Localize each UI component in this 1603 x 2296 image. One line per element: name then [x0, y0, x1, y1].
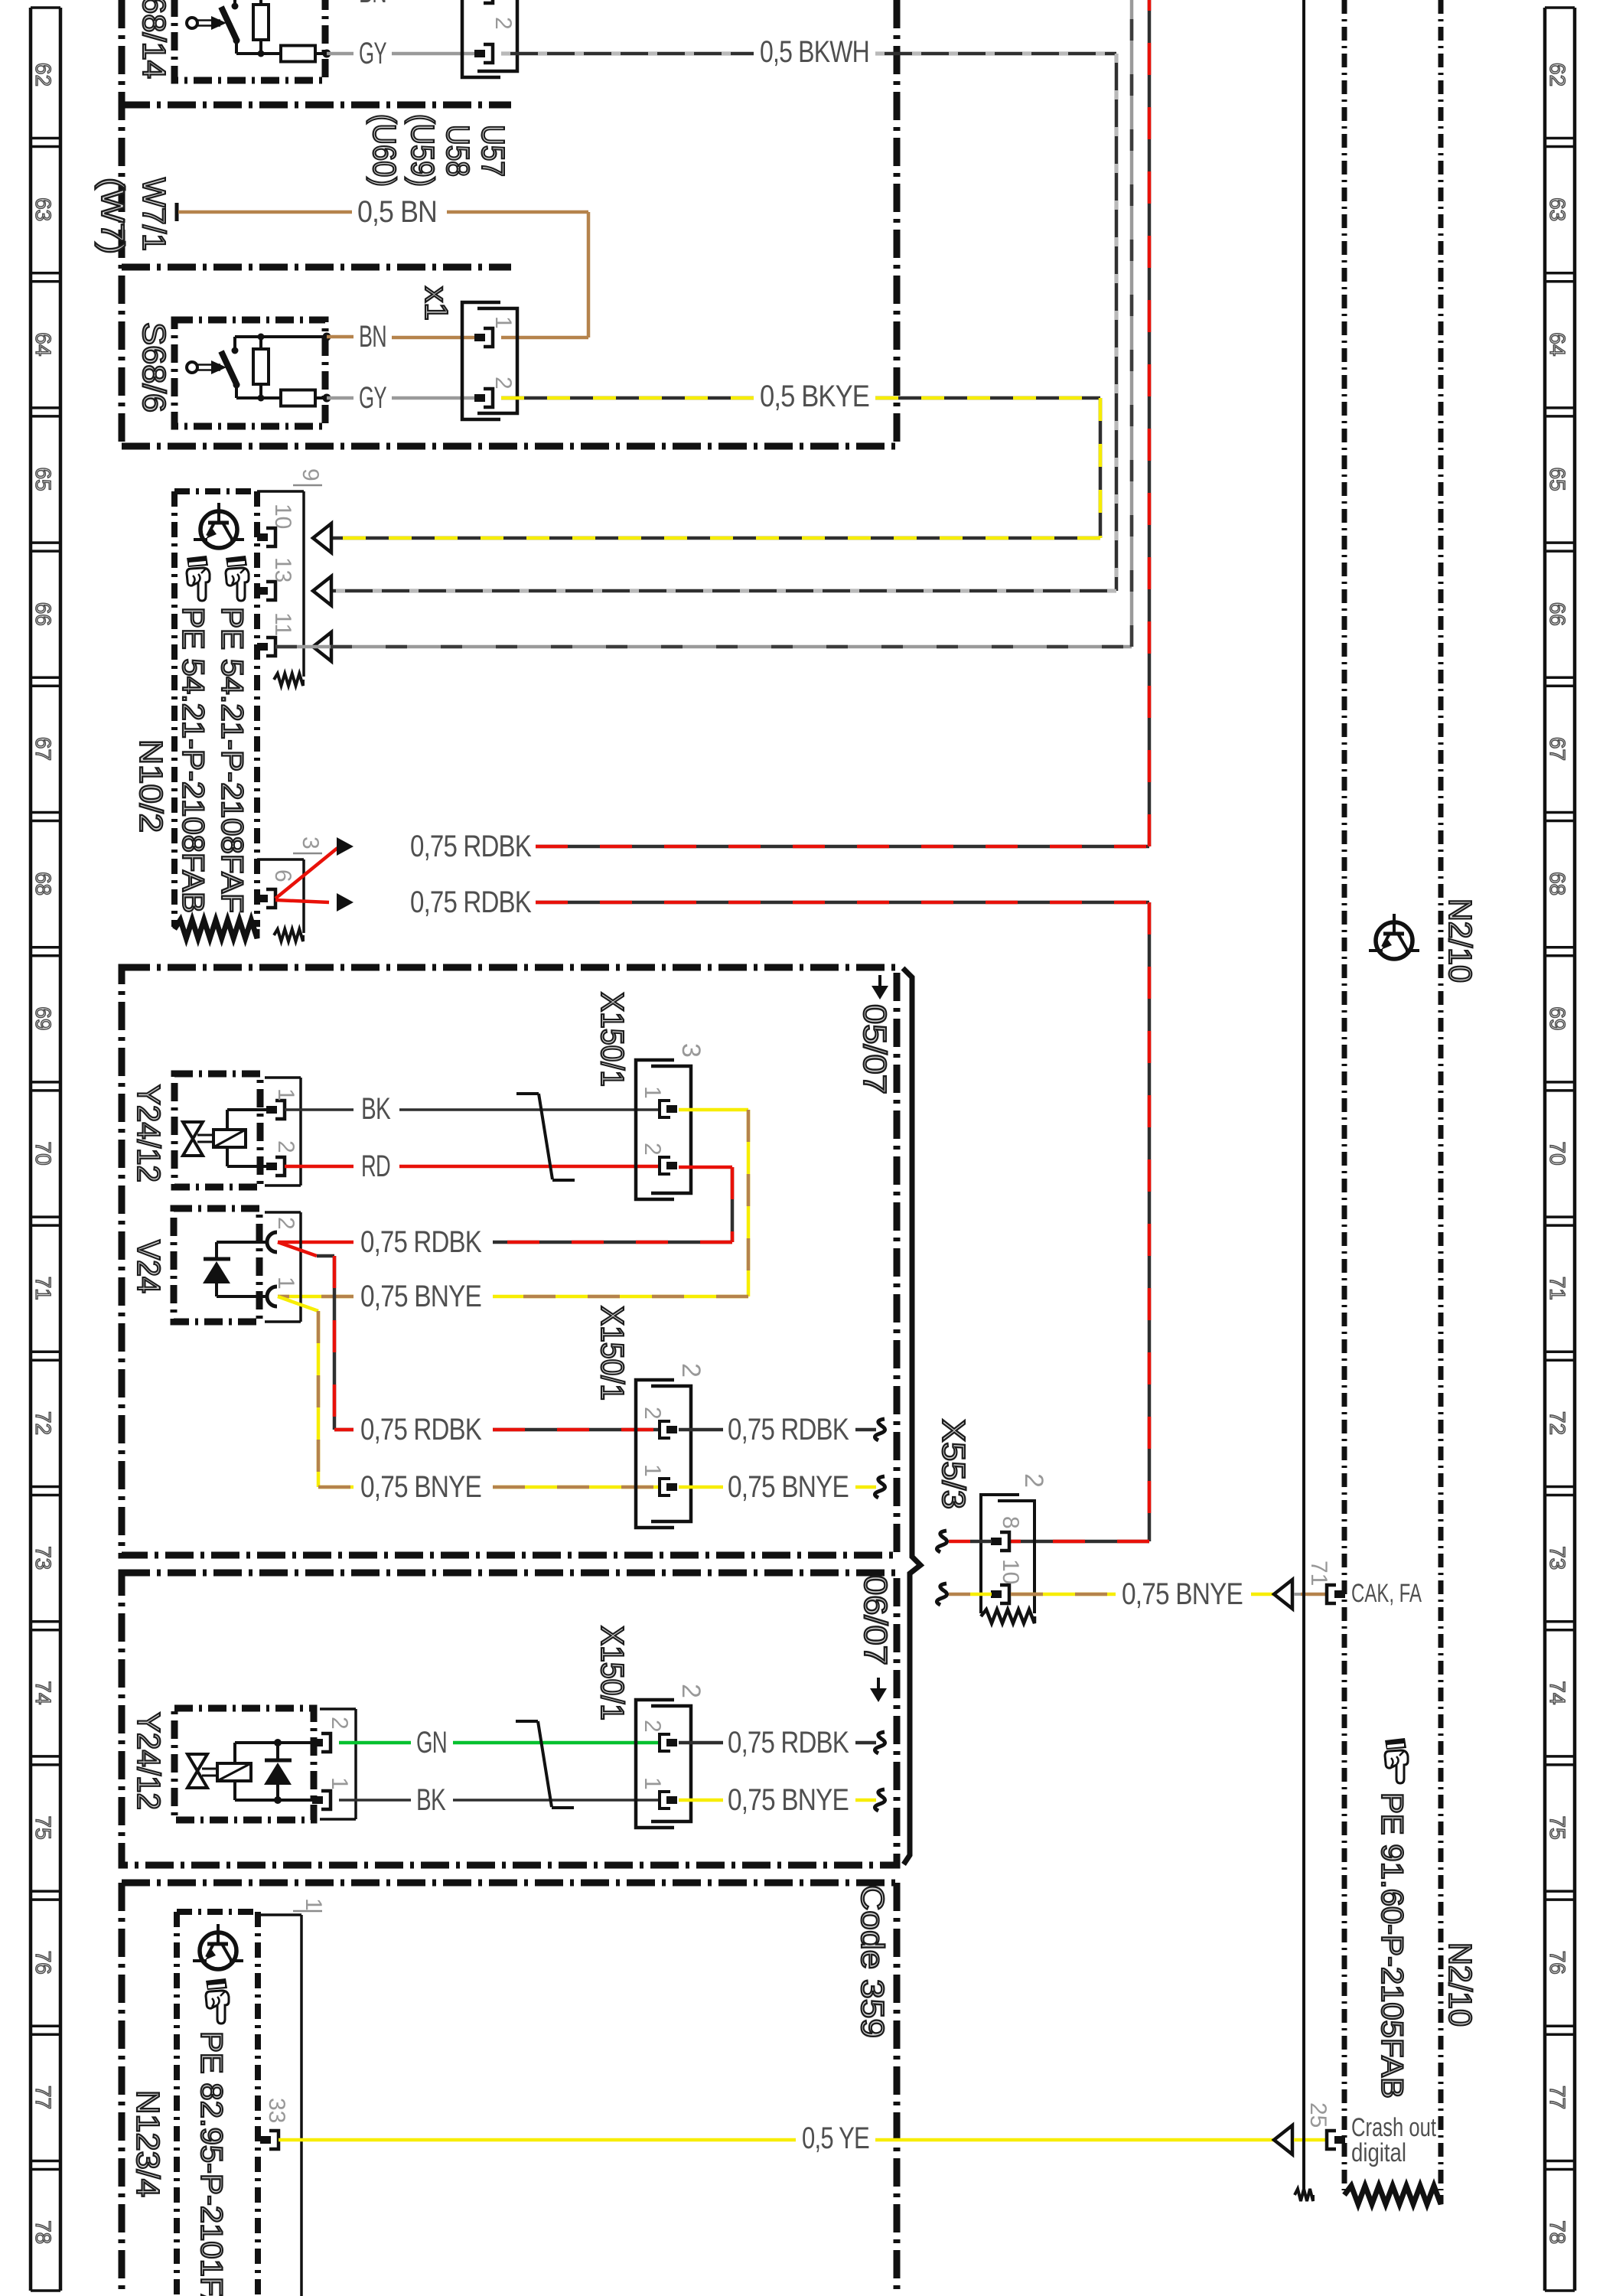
wire RD	[285, 1150, 661, 1183]
svg-text:N123/4: N123/4	[130, 2090, 166, 2197]
svg-text:33: 33	[264, 2098, 289, 2123]
svg-text:N2/10: N2/10	[1442, 1942, 1478, 2027]
wire 0,75 RDBK lower branch	[275, 885, 1149, 1541]
valve unit Y24/12 late	[131, 1708, 356, 1820]
svg-text:Y24/12: Y24/12	[131, 1084, 167, 1182]
svg-text:1: 1	[640, 1777, 665, 1790]
wire 0,75 BNYE stub right late	[679, 1783, 885, 1817]
svg-text:(U59): (U59)	[405, 114, 441, 187]
svg-text:0,75 RDBK: 0,75 RDBK	[728, 1726, 849, 1760]
svg-text:13: 13	[270, 557, 295, 582]
svg-text:76: 76	[1546, 1951, 1569, 1975]
connector X1 lower	[419, 286, 517, 419]
svg-text:67: 67	[31, 737, 55, 761]
label U57 U58 (U59) (U60)	[367, 114, 511, 187]
svg-text:BK: BK	[416, 1783, 446, 1817]
svg-text:PE 54.21-P-2108FAB: PE 54.21-P-2108FAB	[176, 607, 210, 913]
cable marker late	[516, 1721, 574, 1808]
pin 71 CAK FA	[1306, 1561, 1422, 1608]
control unit N123/4	[130, 1912, 258, 2296]
switch S68/6	[136, 320, 331, 426]
svg-text:Code 359: Code 359	[855, 1885, 891, 2038]
svg-text:1: 1	[273, 1277, 298, 1290]
svg-text:0,75 BNYE: 0,75 BNYE	[1122, 1577, 1243, 1611]
svg-text:06/07: 06/07	[858, 1575, 894, 1665]
svg-text:2: 2	[327, 1717, 352, 1730]
svg-text:3: 3	[298, 837, 323, 850]
svg-text:BN: BN	[359, 320, 386, 354]
svg-text:0,75 RDBK: 0,75 RDBK	[360, 1413, 482, 1446]
wire GY from N10/2 pin 11	[275, 0, 1132, 647]
svg-text:W7/1: W7/1	[136, 178, 172, 251]
svg-text:N10/2: N10/2	[133, 739, 169, 833]
svg-text:0,75 RDBK: 0,75 RDBK	[410, 830, 532, 863]
wire 0,75 BNYE upper	[278, 1110, 748, 1313]
wire GY	[327, 381, 474, 415]
svg-text:74: 74	[1546, 1681, 1569, 1704]
svg-text:S68/6: S68/6	[136, 322, 172, 413]
svg-text:65: 65	[1546, 468, 1569, 491]
wire BN	[327, 320, 474, 354]
wire 0,5 BN	[178, 195, 588, 338]
svg-text:78: 78	[1546, 2220, 1569, 2244]
svg-text:65: 65	[31, 468, 55, 491]
connector bracket N10/2 pins 10 13 11	[257, 468, 331, 686]
svg-text:75: 75	[31, 1816, 55, 1840]
svg-text:64: 64	[1546, 332, 1569, 356]
svg-text:70: 70	[1546, 1142, 1569, 1166]
svg-text:X55/3: X55/3	[936, 1419, 972, 1509]
svg-text:Y24/12: Y24/12	[131, 1712, 167, 1810]
svg-text:2: 2	[640, 1720, 665, 1733]
svg-text:2: 2	[640, 1407, 665, 1420]
control unit N2/10	[1344, 0, 1478, 2204]
svg-text:U57: U57	[475, 125, 511, 177]
svg-text:CAK, FA: CAK, FA	[1351, 1579, 1422, 1608]
valve unit Y24/12	[131, 1074, 301, 1187]
svg-text:X150/1: X150/1	[595, 1306, 630, 1401]
svg-text:1: 1	[273, 1088, 298, 1101]
box 05/07	[122, 967, 897, 1555]
svg-text:2: 2	[640, 1143, 665, 1156]
svg-text:69: 69	[1546, 1006, 1569, 1030]
svg-text:2: 2	[676, 1684, 705, 1698]
svg-text:62: 62	[31, 63, 55, 86]
svg-text:75: 75	[1546, 1816, 1569, 1840]
control unit N10/2	[133, 491, 257, 938]
svg-text:05/07: 05/07	[857, 1004, 893, 1094]
svg-text:71: 71	[1306, 1561, 1331, 1586]
wire 0,75 BNYE stub right	[679, 1470, 885, 1504]
wire 0,75 RDBK stub right late	[679, 1726, 885, 1760]
svg-text:0,75 RDBK: 0,75 RDBK	[410, 885, 532, 919]
wire 0,5 BKYE	[331, 380, 1100, 538]
svg-text:62: 62	[1546, 63, 1569, 86]
svg-text:1: 1	[640, 1086, 665, 1099]
brace X55/3 range	[903, 968, 920, 1864]
svg-text:1: 1	[327, 1777, 352, 1790]
diode V24	[131, 1208, 301, 1322]
wire 0,5 BKWH	[331, 35, 1116, 591]
svg-text:71: 71	[31, 1277, 55, 1300]
svg-text:PE 82.95-P-2101FAB: PE 82.95-P-2101FAB	[194, 2031, 228, 2296]
switch S68/14	[136, 0, 331, 80]
svg-text:GY: GY	[359, 37, 386, 70]
connector bracket N123/4 pin 33	[258, 1898, 326, 2296]
svg-text:71: 71	[1546, 1277, 1569, 1300]
svg-text:digital: digital	[1351, 2138, 1406, 2167]
svg-text:66: 66	[1546, 602, 1569, 626]
connector X150/1 2-pin late	[595, 1626, 705, 1828]
box S68 switch assembly	[122, 0, 897, 446]
svg-text:10: 10	[998, 1559, 1023, 1584]
svg-text:0,75 BNYE: 0,75 BNYE	[360, 1470, 481, 1504]
svg-text:PE 54.21-P-2108FAF: PE 54.21-P-2108FAF	[215, 607, 249, 913]
svg-text:68: 68	[31, 872, 55, 895]
svg-text:66: 66	[31, 602, 55, 626]
svg-text:2: 2	[490, 377, 516, 390]
svg-text:X150/1: X150/1	[595, 1626, 630, 1720]
wire 0,5 YE	[279, 2122, 1328, 2155]
antenna W7/1 (W7)	[95, 178, 177, 254]
svg-text:76: 76	[31, 1951, 55, 1975]
svg-text:0,5 BN: 0,5 BN	[357, 195, 437, 229]
svg-text:0,75 BNYE: 0,75 BNYE	[728, 1470, 849, 1504]
svg-text:68: 68	[1546, 872, 1569, 895]
svg-text:72: 72	[1546, 1411, 1569, 1435]
pin 25 Crash out digital	[1305, 2102, 1436, 2167]
svg-text:2: 2	[1019, 1473, 1048, 1488]
svg-text:GY: GY	[359, 381, 386, 415]
svg-text:x1: x1	[419, 286, 455, 321]
wire BK	[285, 1092, 661, 1126]
svg-text:8: 8	[998, 1516, 1023, 1529]
svg-text:77: 77	[1546, 2086, 1569, 2109]
svg-text:25: 25	[1305, 2102, 1331, 2128]
wire BK late	[339, 1783, 661, 1817]
svg-text:U58: U58	[440, 125, 476, 177]
svg-text:63: 63	[31, 197, 55, 221]
svg-text:0,75 BNYE: 0,75 BNYE	[360, 1280, 481, 1313]
svg-text:0,5 YE: 0,5 YE	[802, 2122, 869, 2155]
connector X55/3	[936, 1419, 1048, 1623]
wire 0,75 RDBK stub right	[679, 1413, 885, 1446]
connector X1 upper	[462, 0, 517, 77]
svg-text:11: 11	[270, 612, 295, 636]
svg-text:0,75 RDBK: 0,75 RDBK	[728, 1413, 849, 1446]
svg-text:1: 1	[301, 1898, 326, 1911]
svg-text:3: 3	[676, 1043, 705, 1058]
wire 0,75 BNYE to X150/1-2 pin 1	[278, 1296, 661, 1504]
svg-text:0,5 BKWH: 0,5 BKWH	[760, 35, 869, 69]
connector bracket N10/2 pin 6	[257, 837, 323, 941]
wire 0,75 BNYE to N2/10 pin 71	[1011, 1577, 1328, 1611]
wire GY S68/14	[327, 37, 474, 70]
wire 0,75 RDBK upper branch	[275, 0, 1149, 899]
svg-text:9: 9	[298, 468, 323, 481]
connector rail N2/10	[1295, 0, 1313, 2201]
svg-text:(W7): (W7)	[95, 178, 131, 254]
svg-text:V24: V24	[131, 1240, 167, 1293]
box 06/07	[122, 1573, 897, 1865]
svg-text:74: 74	[31, 1681, 55, 1704]
wire BN S68/14	[359, 0, 386, 9]
svg-text:N2/10: N2/10	[1442, 899, 1478, 983]
svg-text:6: 6	[270, 869, 295, 882]
svg-text:0,75 BNYE: 0,75 BNYE	[728, 1783, 849, 1817]
svg-text:RD: RD	[361, 1150, 390, 1183]
svg-text:2: 2	[676, 1363, 705, 1378]
wire 0,75 RDBK to X150/1-2 pin 2	[278, 1242, 661, 1446]
connector X150/1 3-pin	[595, 992, 705, 1199]
cable marker	[516, 1094, 575, 1180]
svg-text:69: 69	[31, 1006, 55, 1030]
svg-text:BN: BN	[359, 0, 386, 9]
svg-text:73: 73	[31, 1546, 55, 1570]
svg-text:1: 1	[640, 1464, 665, 1477]
connector X150/1 2-pin	[595, 1306, 705, 1528]
svg-text:2: 2	[273, 1217, 298, 1230]
svg-text:73: 73	[1546, 1546, 1569, 1570]
svg-text:0,5 BKYE: 0,5 BKYE	[760, 380, 869, 413]
svg-text:PE 91.60-P-2105FAB: PE 91.60-P-2105FAB	[1375, 1792, 1409, 2099]
svg-text:77: 77	[31, 2086, 55, 2109]
wire 0,75 RDBK upper loop	[278, 1167, 732, 1259]
wire GN	[339, 1726, 661, 1760]
svg-text:10: 10	[270, 504, 295, 529]
box Code 359	[122, 1883, 897, 2296]
svg-text:1: 1	[490, 316, 516, 329]
svg-text:(U60): (U60)	[367, 114, 402, 187]
svg-text:72: 72	[31, 1411, 55, 1435]
svg-text:67: 67	[1546, 737, 1569, 761]
svg-text:63: 63	[1546, 197, 1569, 221]
svg-text:64: 64	[31, 332, 55, 356]
svg-text:S68/14: S68/14	[136, 0, 172, 79]
svg-text:70: 70	[31, 1142, 55, 1166]
svg-text:0,75 RDBK: 0,75 RDBK	[360, 1225, 482, 1259]
svg-text:2: 2	[273, 1140, 298, 1153]
svg-text:BK: BK	[361, 1092, 391, 1126]
svg-text:2: 2	[490, 17, 516, 30]
svg-text:X150/1: X150/1	[595, 992, 630, 1087]
svg-text:78: 78	[31, 2220, 55, 2244]
svg-text:GN: GN	[416, 1726, 447, 1760]
